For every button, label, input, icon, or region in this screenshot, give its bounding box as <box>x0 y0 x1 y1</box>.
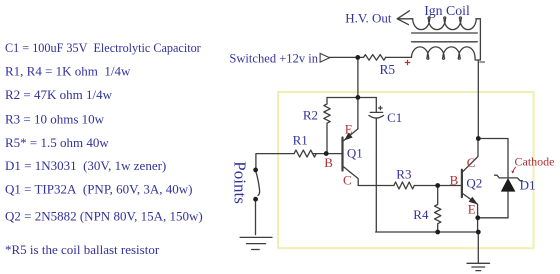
ign coil primary winding <box>412 47 476 59</box>
primary + polarity mark <box>405 60 411 65</box>
wire R1 to Q1 base <box>312 153 341 155</box>
svg-text:R5* = 1.5 ohm 40w: R5* = 1.5 ohm 40w <box>5 135 109 150</box>
capacitor C1 top plate <box>370 111 382 113</box>
ign coil secondary winding <box>413 17 477 30</box>
wire secondary to H.V. arrow <box>397 18 413 20</box>
svg-text:D1 = 1N3031 (30V, 1w zener): D1 = 1N3031 (30V, 1w zener) <box>5 158 166 173</box>
schematic highlight box <box>278 92 534 248</box>
svg-text:B: B <box>324 155 333 170</box>
transistor Q1 base bar <box>341 138 343 171</box>
svg-text:E: E <box>468 202 476 217</box>
node: Q2 emitter / D1 anode <box>475 215 480 220</box>
wire points to ground <box>255 199 257 234</box>
node: Q1 base <box>324 151 329 156</box>
H.V. Out arrow <box>397 11 409 25</box>
Q2 emitter arrow (NPN, points out) <box>469 197 477 204</box>
wire Q1 collector to R3 <box>358 185 394 187</box>
wire D1 to emitter node <box>478 217 508 219</box>
Q2 emitter lead <box>463 194 478 233</box>
wire points to R1 <box>256 154 294 170</box>
svg-text:Q1: Q1 <box>347 145 363 160</box>
wire junction down to Q1 emitter <box>357 97 359 128</box>
wire secondary right + bracket to primary <box>475 19 480 60</box>
svg-text:C: C <box>343 172 352 187</box>
ign coil core <box>412 33 478 42</box>
svg-text:D1: D1 <box>520 178 536 193</box>
wire +12v feed <box>329 56 363 58</box>
wire rail to ground <box>477 232 479 263</box>
node: Q2 collector / coil / D1 <box>476 136 481 141</box>
ground (bottom) <box>467 263 490 270</box>
points switch blade <box>256 171 260 196</box>
node: rail / ground <box>476 230 481 235</box>
zener D1 cathode bar <box>495 175 523 180</box>
svg-text:R1, R4 = 1K ohm 1/4w: R1, R4 = 1K ohm 1/4w <box>5 63 131 78</box>
node: R2/C1 rail junction <box>356 95 361 100</box>
svg-text:Ign Coil: Ign Coil <box>424 3 470 18</box>
Q1 collector lead <box>344 167 359 186</box>
svg-text:C1: C1 <box>387 110 402 125</box>
wire collector node to D1 <box>478 139 508 178</box>
svg-text:H.V. Out: H.V. Out <box>345 11 392 26</box>
schematic red labels <box>324 121 554 216</box>
Q1 emitter lead <box>344 129 359 141</box>
wire R2/C1 horizontal <box>327 97 376 99</box>
wire junction down from +12v to R2/C1 rail <box>357 57 359 97</box>
svg-text:Switched +12v in: Switched +12v in <box>229 51 318 65</box>
svg-text:R5: R5 <box>380 62 396 77</box>
svg-text:Q2: Q2 <box>466 176 482 191</box>
ground rail <box>376 231 479 233</box>
resistor R1 <box>294 150 316 157</box>
cathode pointer arrow <box>513 167 516 173</box>
resistor R2 <box>324 98 330 154</box>
wire R5 to coil primary <box>385 56 411 58</box>
svg-text:Points: Points <box>231 161 250 204</box>
svg-text:B: B <box>450 173 459 188</box>
wire coil down to Q2 collector node <box>477 60 479 139</box>
+12v input arrowhead <box>320 53 330 62</box>
svg-text:R3: R3 <box>396 166 411 181</box>
svg-text:Cathode: Cathode <box>515 155 555 169</box>
ground (points) <box>240 237 272 249</box>
points switch top contact <box>253 168 258 173</box>
svg-text:Q1 = TIP32A (PNP, 60V, 3A, 40: Q1 = TIP32A (PNP, 60V, 3A, 40w) <box>5 182 192 197</box>
svg-text:E: E <box>345 121 353 136</box>
svg-text:C: C <box>467 155 476 170</box>
Q1 emitter arrow (PNP, points to base) <box>345 133 352 140</box>
Q2 collector lead <box>463 139 478 172</box>
svg-text:R1: R1 <box>293 132 308 147</box>
wire C1 bottom to ground rail <box>375 119 377 232</box>
points switch bottom contact <box>253 197 258 202</box>
schematic blue labels <box>229 3 535 222</box>
svg-text:R4: R4 <box>413 207 429 222</box>
capacitor C1 curved plate <box>369 115 384 118</box>
svg-text:Q2 = 2N5882 (NPN 80V, 15A, 150: Q2 = 2N5882 (NPN 80V, 15A, 150w) <box>5 208 203 223</box>
node: R3/R4/Q2 base <box>435 183 440 188</box>
diode D1 triangle <box>501 179 515 192</box>
transistor Q2 base bar <box>461 170 463 197</box>
resistor R5 <box>364 55 386 61</box>
svg-text:C1 = 100uF 35V Electrolytic C: C1 = 100uF 35V Electrolytic Capacitor <box>5 41 201 55</box>
capacitor C1 top lead <box>375 98 377 113</box>
svg-text:R2: R2 <box>303 108 318 123</box>
resistor R4 <box>435 186 441 233</box>
node: R4 bottom rail <box>435 230 440 235</box>
svg-text:R3 = 10 ohms 10w: R3 = 10 ohms 10w <box>5 112 105 127</box>
node: +12v / R5 junction <box>355 55 360 60</box>
resistor R3 <box>394 182 414 189</box>
D1 anode lead <box>507 191 509 218</box>
svg-text:R2 = 47K ohm 1/4w: R2 = 47K ohm 1/4w <box>5 87 113 102</box>
primary - polarity mark <box>479 61 485 63</box>
C1 plus sign <box>378 106 382 110</box>
component value list <box>5 41 203 257</box>
wire R3 to Q2 base <box>414 185 461 187</box>
svg-text:*R5 is the coil ballast resist: *R5 is the coil ballast resistor <box>5 242 160 257</box>
